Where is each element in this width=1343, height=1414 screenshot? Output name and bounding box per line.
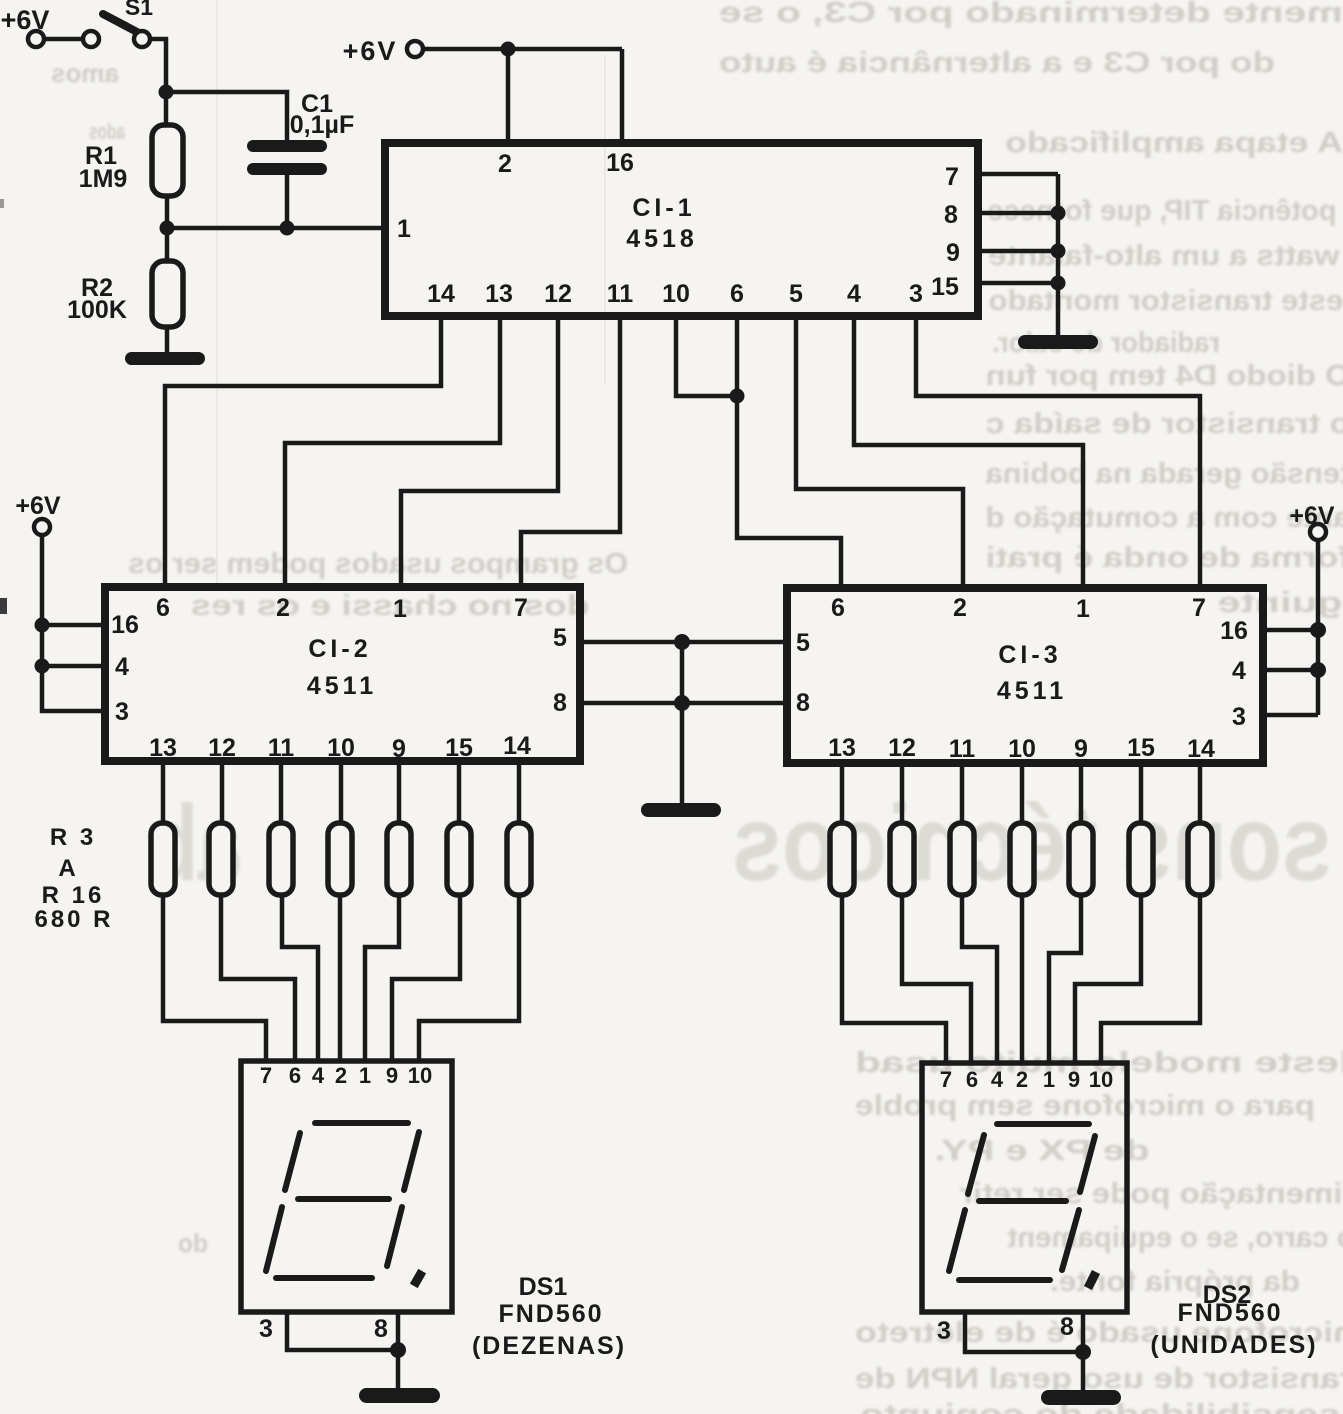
svg-text:(UNIDADES): (UNIDADES) bbox=[1150, 1331, 1317, 1359]
svg-text:14: 14 bbox=[427, 280, 455, 308]
svg-text:13: 13 bbox=[149, 734, 177, 762]
svg-text:1: 1 bbox=[359, 1063, 371, 1088]
svg-text:7: 7 bbox=[945, 163, 959, 191]
svg-text:9: 9 bbox=[1068, 1067, 1080, 1092]
svg-text:R 16: R 16 bbox=[42, 882, 105, 909]
svg-text:Os grampos usados podem ser os: Os grampos usados podem ser os bbox=[128, 548, 628, 580]
svg-text:1: 1 bbox=[1076, 595, 1090, 623]
svg-text:R 3: R 3 bbox=[50, 824, 96, 851]
svg-text:A etapa amplificado: A etapa amplificado bbox=[1005, 127, 1343, 159]
svg-text:6: 6 bbox=[966, 1067, 978, 1092]
svg-text:10: 10 bbox=[662, 280, 690, 308]
svg-text:4: 4 bbox=[1232, 657, 1246, 685]
svg-text:11: 11 bbox=[268, 734, 295, 762]
svg-text:+6V: +6V bbox=[1289, 502, 1335, 530]
svg-text:10: 10 bbox=[1008, 735, 1036, 763]
svg-text:12: 12 bbox=[208, 734, 236, 762]
svg-text:S1: S1 bbox=[125, 0, 153, 20]
svg-text:2: 2 bbox=[953, 594, 967, 622]
svg-text:O diodo D4 tem por fun: O diodo D4 tem por fun bbox=[986, 360, 1343, 392]
svg-text:14: 14 bbox=[1187, 735, 1215, 763]
svg-text:2: 2 bbox=[276, 594, 290, 622]
svg-text:15: 15 bbox=[445, 734, 473, 762]
svg-text:7: 7 bbox=[940, 1067, 952, 1092]
svg-text:o transistor de saída c: o transistor de saída c bbox=[986, 408, 1343, 440]
svg-text:9: 9 bbox=[392, 735, 406, 763]
svg-text:do carro, se o equipament: do carro, se o equipament bbox=[1007, 1222, 1343, 1254]
svg-text:10: 10 bbox=[1089, 1067, 1113, 1092]
svg-text:14: 14 bbox=[503, 732, 531, 760]
svg-text:11: 11 bbox=[949, 735, 976, 763]
svg-text:(DEZENAS): (DEZENAS) bbox=[472, 1332, 626, 1360]
svg-text:680 R: 680 R bbox=[34, 906, 113, 933]
svg-text:6: 6 bbox=[156, 594, 170, 622]
svg-text:dos no chassi e os res: dos no chassi e os res bbox=[190, 590, 589, 622]
svg-text:4511: 4511 bbox=[307, 672, 377, 700]
svg-text:1: 1 bbox=[1043, 1067, 1055, 1092]
svg-text:6: 6 bbox=[831, 594, 845, 622]
svg-text:do por C3 e a alternância é au: do por C3 e a alternância é auto bbox=[719, 47, 1275, 79]
svg-text:7: 7 bbox=[1192, 594, 1206, 622]
svg-text:16: 16 bbox=[606, 149, 634, 177]
svg-text:amos: amos bbox=[51, 58, 119, 88]
svg-text:CI-1: CI-1 bbox=[632, 194, 695, 222]
svg-text:8: 8 bbox=[553, 689, 567, 717]
svg-text:100K: 100K bbox=[67, 296, 127, 324]
svg-text:3: 3 bbox=[937, 1317, 951, 1345]
svg-text:7: 7 bbox=[514, 594, 528, 622]
svg-text:do: do bbox=[178, 1228, 208, 1258]
svg-text:1: 1 bbox=[397, 215, 411, 243]
svg-text:alimentação pode ser retir: alimentação pode ser retir bbox=[960, 1178, 1343, 1210]
svg-text:5: 5 bbox=[553, 624, 567, 652]
svg-text:4: 4 bbox=[847, 280, 861, 308]
svg-text:FND560: FND560 bbox=[1177, 1299, 1282, 1327]
svg-text:15: 15 bbox=[931, 273, 959, 301]
svg-text:10: 10 bbox=[327, 734, 355, 762]
svg-text:12: 12 bbox=[544, 280, 572, 308]
svg-text:3: 3 bbox=[115, 698, 129, 726]
svg-text:2: 2 bbox=[1016, 1067, 1028, 1092]
svg-text:8: 8 bbox=[944, 201, 958, 229]
svg-text:1: 1 bbox=[393, 595, 407, 623]
svg-text:mente determinado por C3, o se: mente determinado por C3, o se bbox=[719, 0, 1343, 29]
svg-text:11: 11 bbox=[607, 280, 634, 308]
svg-text:13: 13 bbox=[828, 734, 856, 762]
svg-text:4: 4 bbox=[991, 1067, 1004, 1092]
svg-text:5: 5 bbox=[796, 629, 810, 657]
svg-text:forma de onda é prati: forma de onda é prati bbox=[986, 542, 1343, 574]
svg-text:tensão gerada na bobina: tensão gerada na bobina bbox=[985, 458, 1343, 490]
svg-text:1M9: 1M9 bbox=[79, 165, 128, 193]
svg-text:watts a um alto-falante: watts a um alto-falante bbox=[989, 240, 1341, 272]
svg-text:4: 4 bbox=[115, 653, 129, 681]
svg-text:7: 7 bbox=[260, 1063, 272, 1088]
svg-text:ados: ados bbox=[89, 119, 125, 144]
svg-text:+6V: +6V bbox=[15, 492, 61, 520]
svg-text:2: 2 bbox=[498, 150, 512, 178]
svg-text:4: 4 bbox=[312, 1063, 325, 1088]
svg-text:de PX e PY.: de PX e PY. bbox=[935, 1135, 1150, 1167]
svg-text:A: A bbox=[58, 855, 75, 882]
svg-text:9: 9 bbox=[386, 1063, 398, 1088]
svg-text:5: 5 bbox=[789, 280, 803, 308]
svg-text:3: 3 bbox=[909, 280, 923, 308]
svg-text:10: 10 bbox=[408, 1063, 432, 1088]
svg-text:9: 9 bbox=[946, 239, 960, 267]
svg-text:4511: 4511 bbox=[997, 677, 1067, 705]
svg-text:12: 12 bbox=[888, 734, 916, 762]
svg-text:8: 8 bbox=[374, 1315, 388, 1343]
svg-text:16: 16 bbox=[1220, 617, 1248, 645]
svg-text:CI-3: CI-3 bbox=[998, 641, 1061, 669]
svg-text:FND560: FND560 bbox=[498, 1300, 603, 1328]
svg-text:+6V: +6V bbox=[1, 5, 50, 35]
svg-text:8: 8 bbox=[1060, 1313, 1074, 1341]
svg-text:6: 6 bbox=[289, 1063, 301, 1088]
svg-text:13: 13 bbox=[485, 280, 513, 308]
svg-text:DS1: DS1 bbox=[519, 1273, 568, 1301]
svg-text:2: 2 bbox=[335, 1063, 347, 1088]
svg-text:CI-2: CI-2 bbox=[308, 635, 371, 663]
svg-text:9: 9 bbox=[1074, 735, 1088, 763]
svg-text:3: 3 bbox=[259, 1315, 273, 1343]
svg-text:+6V: +6V bbox=[343, 36, 398, 66]
svg-text:este transistor montado: este transistor montado bbox=[989, 285, 1343, 317]
svg-text:4518: 4518 bbox=[626, 225, 698, 253]
svg-text:15: 15 bbox=[1127, 734, 1155, 762]
svg-text:8: 8 bbox=[796, 689, 810, 717]
svg-text:16: 16 bbox=[111, 611, 139, 639]
svg-text:0,1µF: 0,1µF bbox=[290, 111, 354, 139]
svg-text:6: 6 bbox=[730, 280, 744, 308]
svg-text:3: 3 bbox=[1232, 703, 1246, 731]
